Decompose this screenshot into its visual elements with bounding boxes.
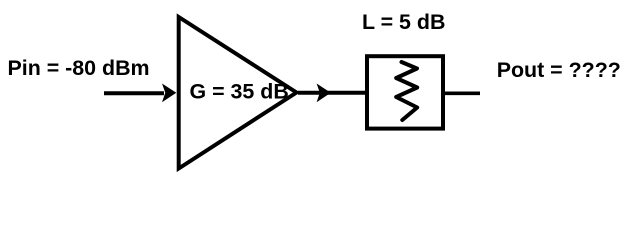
svg-text:L = 5 dB: L = 5 dB [362, 10, 445, 34]
resistor attenuator box [367, 56, 443, 128]
svg-text:G = 35 dB: G = 35 dB [190, 80, 289, 104]
wire input shaft [104, 91, 164, 95]
svg-text:Pout = ????: Pout = ???? [497, 58, 621, 82]
wire mid arrowhead [317, 84, 331, 103]
svg-text:Pin = -80 dBm: Pin = -80 dBm [8, 56, 150, 80]
wire output stub [445, 92, 480, 96]
resistor zigzag [396, 62, 417, 120]
op-amp U1 amplifier triangle [179, 17, 297, 169]
wire input arrowhead [162, 84, 176, 103]
wire triangle to attenuator [298, 91, 365, 95]
